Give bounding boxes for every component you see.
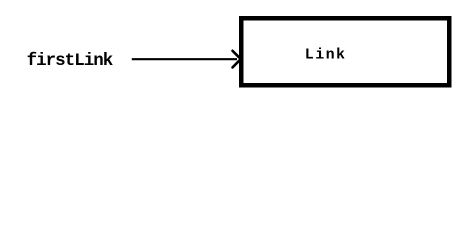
svg-text:firstLink: firstLink: [27, 51, 113, 71]
svg-text:Link: Link: [305, 46, 347, 63]
